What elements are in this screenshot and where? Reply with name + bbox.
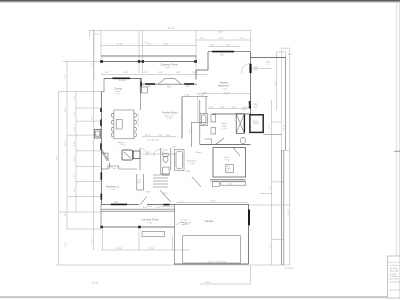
porch post (right) xyxy=(194,60,197,63)
svg-text:7'-6": 7'-6" xyxy=(270,186,272,190)
svg-text:Bench: Bench xyxy=(196,152,201,154)
right section xyxy=(251,57,286,59)
svg-text:14'-6": 14'-6" xyxy=(163,44,169,46)
kitchen range xyxy=(122,150,133,160)
svg-text:5'-4": 5'-4" xyxy=(74,188,76,192)
svg-text:11'-6": 11'-6" xyxy=(65,107,67,112)
master toilet xyxy=(241,137,246,143)
svg-text:9'-8": 9'-8" xyxy=(189,129,191,133)
svg-text:Lot Three: Lot Three xyxy=(390,264,400,267)
svg-text:3'-2": 3'-2" xyxy=(74,96,76,100)
garage-to-house door jamb xyxy=(248,210,250,226)
svg-text:5'-0": 5'-0" xyxy=(74,157,76,161)
top dims xyxy=(89,29,251,31)
bath2 toilet xyxy=(163,154,168,157)
kitchen oven/dw xyxy=(133,151,140,159)
svg-text:9' Clg: 9' Clg xyxy=(165,67,170,69)
svg-text:19'-4": 19'-4" xyxy=(288,209,290,215)
svg-text:11'-10": 11'-10" xyxy=(224,92,231,94)
svg-text:5'-0": 5'-0" xyxy=(266,62,270,64)
family room xyxy=(181,97,183,139)
svg-text:4'-0": 4'-0" xyxy=(269,125,271,129)
svg-text:1'-10": 1'-10" xyxy=(192,72,198,74)
svg-text:2'-8": 2'-8" xyxy=(158,135,163,137)
svg-text:step: step xyxy=(228,183,232,186)
walk-in closet with X shelving xyxy=(236,114,244,134)
svg-text:Craft Plan: Craft Plan xyxy=(390,275,400,278)
svg-text:5'-8": 5'-8" xyxy=(176,72,181,74)
svg-text:9' Clg: 9' Clg xyxy=(222,128,227,130)
master tub xyxy=(200,114,207,126)
svg-text:Bedroom: Bedroom xyxy=(219,84,231,88)
svg-text:Door: Door xyxy=(254,105,258,108)
svg-text:4'-6": 4'-6" xyxy=(74,127,76,131)
svg-text:2468: 2468 xyxy=(146,192,150,194)
svg-text:9' Clg: 9' Clg xyxy=(167,118,172,120)
sheet right edge band xyxy=(396,3,398,257)
svg-text:16'-0": 16'-0" xyxy=(218,32,224,34)
svg-text:9' Clg: 9' Clg xyxy=(120,144,125,146)
misc center dims xyxy=(160,206,175,208)
svg-text:Covered Porch: Covered Porch xyxy=(141,218,159,222)
garage xyxy=(175,203,249,205)
svg-text:24'-0": 24'-0" xyxy=(205,282,211,284)
svg-text:9' Clg: 9' Clg xyxy=(225,159,230,161)
svg-text:5'-8": 5'-8" xyxy=(219,38,224,40)
svg-text:16'-0" x 7'-0" OH Door: 16'-0" x 7'-0" OH Door xyxy=(208,260,227,263)
dining table xyxy=(114,110,134,139)
svg-text:1st Floor: 1st Floor xyxy=(390,267,398,270)
svg-text:Family Room: Family Room xyxy=(162,111,179,115)
right dim columns xyxy=(271,100,273,265)
left dim columns xyxy=(58,92,60,265)
svg-text:2'-8": 2'-8" xyxy=(148,206,153,208)
svg-text:1'-0": 1'-0" xyxy=(144,42,148,44)
svg-text:3'-0": 3'-0" xyxy=(147,44,152,46)
closet / stairs center xyxy=(136,174,138,190)
svg-text:3'-0": 3'-0" xyxy=(226,45,231,47)
svg-text:8'-6": 8'-6" xyxy=(275,81,277,85)
svg-text:24'-1 3/4" Clg: 24'-1 3/4" Clg xyxy=(138,113,140,126)
master bump-out xyxy=(208,51,251,53)
svg-text:6'-0": 6'-0" xyxy=(92,116,94,120)
svg-text:11'-10": 11'-10" xyxy=(117,44,124,46)
svg-text:9' Clg: 9' Clg xyxy=(111,189,116,191)
garage overhead door opening xyxy=(183,236,241,263)
svg-text:1'-10": 1'-10" xyxy=(199,94,205,96)
svg-text:36'-10": 36'-10" xyxy=(168,28,175,30)
top photo border band xyxy=(0,0,400,2)
svg-text:31'-0": 31'-0" xyxy=(284,124,286,130)
master shower (dark walls) xyxy=(250,115,263,133)
svg-text:2'-0": 2'-0" xyxy=(65,243,67,247)
svg-text:9' Clg: 9' Clg xyxy=(189,163,194,165)
svg-text:11'-2": 11'-2" xyxy=(65,211,67,216)
svg-text:5'-2": 5'-2" xyxy=(74,112,76,116)
dining room + table xyxy=(115,87,123,96)
svg-text:34'-1 3/4" Clg: 34'-1 3/4" Clg xyxy=(148,140,159,142)
svg-text:5'-10": 5'-10" xyxy=(123,72,129,74)
svg-text:7'-6": 7'-6" xyxy=(270,244,272,248)
svg-text:Shower: Shower xyxy=(253,122,260,125)
svg-text:Door: Door xyxy=(254,68,258,71)
kitchen xyxy=(118,141,124,146)
svg-text:Garage: Garage xyxy=(205,219,214,223)
svg-text:Area Sqft: Area Sqft xyxy=(390,270,399,273)
top covered porch xyxy=(101,55,196,57)
svg-text:11'-10": 11'-10" xyxy=(116,248,123,250)
bottom dims xyxy=(101,249,190,251)
svg-text:5'-8": 5'-8" xyxy=(74,142,76,146)
svg-text:Design: Design xyxy=(390,273,397,275)
svg-text:Clst: Clst xyxy=(137,181,141,184)
svg-text:Covered Porch: Covered Porch xyxy=(160,63,178,67)
svg-text:2'-6": 2'-6" xyxy=(92,239,94,243)
svg-text:31'-0": 31'-0" xyxy=(57,154,59,160)
mud room / utility xyxy=(187,161,197,165)
title block xyxy=(387,256,400,298)
fireplace on west wall xyxy=(95,129,101,138)
washer/dryer unit xyxy=(226,164,234,172)
svg-text:2'-0": 2'-0" xyxy=(95,33,100,35)
svg-text:7'-6": 7'-6" xyxy=(65,75,67,79)
bottom photo border band xyxy=(0,296,400,298)
svg-text:2'-0": 2'-0" xyxy=(288,54,293,56)
svg-text:2'-8": 2'-8" xyxy=(210,45,215,47)
bottom porch xyxy=(101,208,175,210)
porch post (left) xyxy=(100,60,103,63)
svg-text:2'-0": 2'-0" xyxy=(156,207,161,209)
svg-text:1'-0": 1'-0" xyxy=(105,72,110,74)
svg-text:9' Clg: 9' Clg xyxy=(116,94,121,96)
svg-text:3050: 3050 xyxy=(147,86,151,88)
svg-text:16'-1": 16'-1" xyxy=(145,135,151,137)
house top wall: dining section y=78.4, family section y=84.2 xyxy=(104,77,142,79)
svg-text:1'-6": 1'-6" xyxy=(203,92,208,94)
svg-text:9' Clg: 9' Clg xyxy=(147,222,152,224)
svg-text:Dining: Dining xyxy=(115,87,123,91)
bedroom 2 xyxy=(106,184,120,191)
svg-text:Bedroom 2: Bedroom 2 xyxy=(106,184,120,188)
svg-text:6068: 6068 xyxy=(167,87,171,89)
svg-text:9' Clg: 9' Clg xyxy=(222,88,227,90)
svg-text:9040 SH: 9040 SH xyxy=(119,80,127,82)
svg-text:24'-10": 24'-10" xyxy=(92,283,99,285)
svg-text:10'-8": 10'-8" xyxy=(65,140,67,146)
svg-text:2468: 2468 xyxy=(186,171,190,173)
bath2 tub xyxy=(175,150,185,171)
svg-text:5'-8": 5'-8" xyxy=(159,72,164,74)
svg-text:9040: 9040 xyxy=(220,55,224,57)
svg-text:1'-10": 1'-10" xyxy=(142,72,148,74)
svg-text:15'-8": 15'-8" xyxy=(149,248,155,250)
svg-text:3050: 3050 xyxy=(186,86,190,88)
svg-text:2'-0": 2'-0" xyxy=(240,38,245,40)
svg-text:Linen: Linen xyxy=(172,147,177,149)
svg-text:Bath 2: Bath 2 xyxy=(163,149,168,152)
svg-text:7'-6": 7'-6" xyxy=(92,63,94,67)
svg-text:6'-8": 6'-8" xyxy=(163,193,168,195)
svg-text:5'-8": 5'-8" xyxy=(166,135,171,137)
svg-text:Oak Street: Oak Street xyxy=(390,280,400,283)
left wall with windows xyxy=(100,92,102,205)
svg-text:Villa Creek: Villa Creek xyxy=(390,289,400,292)
hall / bath2 fixtures xyxy=(139,148,141,170)
svg-text:2'-0": 2'-0" xyxy=(200,38,205,40)
svg-text:7'-10": 7'-10" xyxy=(184,94,190,96)
svg-text:5'-4": 5'-4" xyxy=(74,173,76,177)
svg-text:3050: 3050 xyxy=(114,201,118,203)
porch post (center pair) xyxy=(138,60,140,63)
extra structure xyxy=(140,80,142,111)
svg-text:New Plan: New Plan xyxy=(390,279,400,281)
svg-text:5'-4": 5'-4" xyxy=(143,207,148,209)
